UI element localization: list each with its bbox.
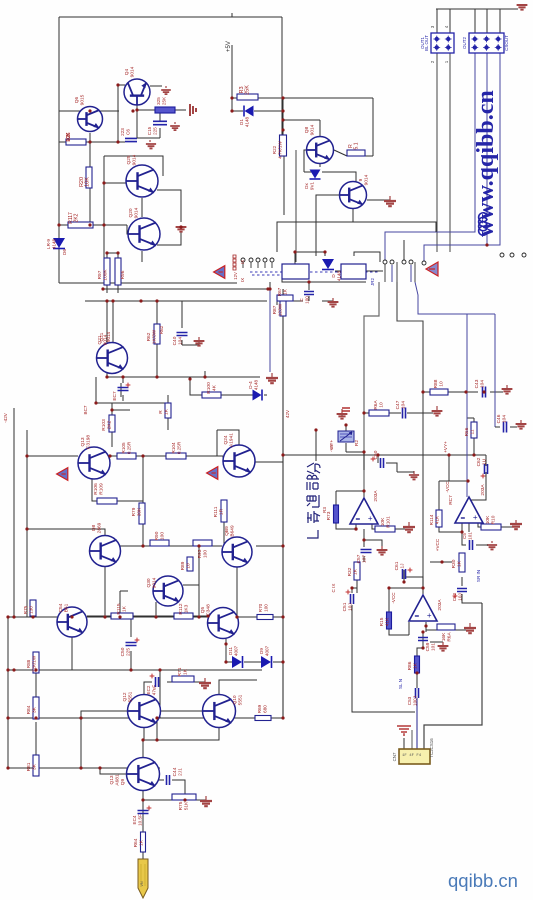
svg-text:R6A: R6A <box>447 632 453 642</box>
svg-text:IX: IX <box>240 278 245 282</box>
svg-text:9014: 9014 <box>106 331 111 342</box>
svg-text:D-4: D-4 <box>248 381 253 389</box>
svg-text:R: R <box>158 410 164 414</box>
svg-text:R75: R75 <box>23 605 28 614</box>
svg-text:-VCC: -VCC <box>445 481 450 493</box>
svg-text:C51: C51 <box>342 602 348 611</box>
svg-text:C62: C62 <box>476 457 482 466</box>
svg-text:680: 680 <box>263 705 268 713</box>
svg-text:R70: R70 <box>258 603 263 612</box>
svg-text:100: 100 <box>203 550 209 558</box>
svg-text:Q24: Q24 <box>223 435 229 444</box>
svg-text:1R: 1R <box>219 508 225 515</box>
svg-text:4007: 4007 <box>234 645 239 656</box>
svg-text:1U: 1U <box>482 458 488 465</box>
svg-text:R88: R88 <box>433 379 439 388</box>
svg-text:223: 223 <box>120 128 125 136</box>
svg-text:Q9: Q9 <box>120 778 126 785</box>
svg-text:Q21: Q21 <box>99 332 104 341</box>
svg-text:101: 101 <box>468 532 473 540</box>
svg-text:5.1: 5.1 <box>354 142 360 149</box>
svg-text:R6A: R6A <box>373 400 379 410</box>
svg-text:10K: 10K <box>66 132 72 142</box>
svg-text:C348: C348 <box>206 604 212 616</box>
svg-text:12V: 12V <box>233 272 238 280</box>
svg-text:QB9: QB9 <box>224 526 230 536</box>
svg-text:225: 225 <box>153 127 158 135</box>
svg-text:11: 11 <box>470 429 476 434</box>
svg-text:1K: 1K <box>122 605 128 612</box>
svg-text:51K: 51K <box>184 801 190 810</box>
svg-text:SR IN: SR IN <box>476 570 481 582</box>
svg-text:R89: R89 <box>180 561 186 570</box>
svg-text:R84: R84 <box>26 705 32 714</box>
svg-text:104: 104 <box>480 380 486 388</box>
svg-text:100K: 100K <box>103 269 109 281</box>
svg-text:101: 101 <box>431 643 437 651</box>
svg-text:5551: 5551 <box>128 691 134 702</box>
svg-text:OUT1: OUT1 <box>420 37 425 49</box>
svg-text:EC2: EC2 <box>146 685 151 694</box>
svg-text:D11: D11 <box>228 647 233 656</box>
svg-text:R106: R106 <box>93 483 99 495</box>
svg-text:C3198: C3198 <box>86 435 92 449</box>
svg-text:Q8: Q8 <box>304 126 310 133</box>
svg-text:10: 10 <box>186 563 192 569</box>
svg-text:C15: C15 <box>147 126 152 135</box>
svg-text:4007: 4007 <box>265 645 270 656</box>
svg-text:C46: C46 <box>496 414 502 423</box>
svg-text:R67: R67 <box>277 287 282 296</box>
svg-text:2J1: 2J1 <box>178 768 184 776</box>
svg-text:R104: R104 <box>171 442 176 453</box>
svg-text:Q5: Q5 <box>200 606 206 613</box>
svg-text:A681: A681 <box>115 774 121 786</box>
svg-text:R86: R86 <box>407 661 413 670</box>
svg-text:10.5F: 10.5F <box>138 814 143 826</box>
svg-text:SL N: SL N <box>398 679 403 689</box>
svg-text:9: 9 <box>358 178 364 181</box>
svg-text:R114: R114 <box>429 514 434 525</box>
svg-text:1K: 1K <box>457 560 463 567</box>
svg-text:2K2: 2K2 <box>74 213 80 222</box>
svg-text:RC7: RC7 <box>448 495 454 505</box>
svg-text:100J: 100J <box>413 696 418 706</box>
svg-text:9014: 9014 <box>134 207 140 218</box>
svg-text:Q20: Q20 <box>128 208 134 217</box>
svg-text:203A: 203A <box>373 490 379 502</box>
svg-text:-VY+: -VY+ <box>329 440 334 451</box>
svg-text:VN: VN <box>140 881 144 887</box>
svg-text:-42V: -42V <box>3 412 8 423</box>
svg-text:R93: R93 <box>197 549 203 558</box>
svg-text:Q13: Q13 <box>80 437 86 446</box>
svg-text:104: 104 <box>502 415 508 423</box>
svg-text:R112: R112 <box>178 603 184 614</box>
svg-text:C6: C6 <box>126 129 131 135</box>
svg-text:R22: R22 <box>272 145 277 154</box>
svg-text:39K: 39K <box>137 507 143 516</box>
svg-text:BC7: BC7 <box>83 405 88 414</box>
svg-text:47uF: 47uF <box>152 685 157 696</box>
svg-text:16K: 16K <box>441 632 447 641</box>
svg-text:100: 100 <box>264 604 269 612</box>
svg-text:www.qqibb.cn: www.qqibb.cn <box>473 90 499 237</box>
svg-text:TC2CS16: TC2CS16 <box>429 738 434 758</box>
svg-text:9015: 9015 <box>80 94 86 105</box>
svg-text:R81: R81 <box>26 762 32 771</box>
svg-text:R66: R66 <box>464 427 470 436</box>
svg-text:9014: 9014 <box>132 154 138 165</box>
svg-text:2K2: 2K2 <box>107 420 113 429</box>
svg-text:C57: C57 <box>356 554 362 563</box>
svg-text:+5V: +5V <box>226 41 232 52</box>
svg-text:Q12: Q12 <box>122 692 128 701</box>
svg-text:+VCC: +VCC <box>435 538 440 551</box>
svg-text:25K: 25K <box>162 96 167 105</box>
svg-text:qqibb.cn: qqibb.cn <box>448 870 518 891</box>
svg-text:EC7: EC7 <box>112 391 118 401</box>
svg-text:0.25R: 0.25R <box>127 441 132 454</box>
svg-text:R71: R71 <box>177 667 183 676</box>
svg-text:2869: 2869 <box>97 522 103 533</box>
svg-text:R30: R30 <box>451 559 457 568</box>
svg-text:10: 10 <box>439 381 445 387</box>
svg-text:R87: R87 <box>272 305 278 314</box>
svg-text:1F 4F F4: 1F 4F F4 <box>402 754 422 758</box>
svg-text:R115: R115 <box>116 603 122 614</box>
svg-text:41K: 41K <box>435 515 440 524</box>
svg-text:R109: R109 <box>99 483 105 495</box>
svg-text:LR-9: LR-9 <box>46 239 51 249</box>
svg-text:R62: R62 <box>146 332 152 341</box>
svg-text:CSOUT: CSOUT <box>504 35 509 51</box>
svg-text:325: 325 <box>156 97 161 105</box>
svg-text:9014: 9014 <box>310 124 316 135</box>
svg-text:B649: B649 <box>230 525 236 537</box>
svg-text:Q30: Q30 <box>146 578 152 587</box>
svg-text:R69: R69 <box>257 704 262 713</box>
svg-text:R105: R105 <box>121 442 126 453</box>
svg-text:R32: R32 <box>347 567 353 576</box>
svg-text:10: 10 <box>379 402 385 408</box>
svg-text:10J: 10J <box>458 593 463 600</box>
svg-text:130: 130 <box>29 606 34 614</box>
svg-text:D6: D6 <box>62 249 67 255</box>
svg-text:Dx: Dx <box>304 182 309 188</box>
svg-text:1K: 1K <box>283 288 288 295</box>
svg-text:1K: 1K <box>413 662 419 669</box>
svg-text:0.25R: 0.25R <box>177 441 182 454</box>
svg-text:B61: B61 <box>64 603 70 612</box>
svg-text:9014: 9014 <box>130 66 136 77</box>
svg-text:C44: C44 <box>172 767 178 776</box>
svg-text:3K: 3K <box>32 706 38 713</box>
svg-text:R111: R111 <box>213 506 219 517</box>
svg-text:1K: 1K <box>164 408 170 415</box>
svg-text:104: 104 <box>401 401 407 409</box>
svg-text:10K: 10K <box>380 517 386 526</box>
svg-text:C53: C53 <box>407 696 412 705</box>
svg-text:+VY+: +VY+ <box>443 441 448 453</box>
svg-text:C50: C50 <box>120 647 126 656</box>
svg-text:10K: 10K <box>85 177 91 187</box>
svg-text:Q8: Q8 <box>91 524 97 531</box>
svg-text:JR2: JR2 <box>370 278 375 286</box>
svg-text:123W: 123W <box>278 303 284 316</box>
svg-text:R75: R75 <box>178 801 184 810</box>
svg-text:225: 225 <box>126 648 132 656</box>
svg-text:D9: D9 <box>259 648 264 654</box>
svg-text:-VCC: -VCC <box>391 592 396 604</box>
svg-text:R2: R2 <box>354 440 360 446</box>
svg-text:42V: 42V <box>285 409 290 418</box>
svg-text:IX: IX <box>240 260 245 264</box>
svg-text:R103: R103 <box>101 419 107 431</box>
svg-text:R97: R97 <box>97 270 103 279</box>
svg-text:C54: C54 <box>58 603 64 612</box>
svg-text:9014: 9014 <box>152 577 158 588</box>
svg-text:4148: 4148 <box>52 238 57 249</box>
svg-text:Q6: Q6 <box>74 96 80 103</box>
svg-text:107: 107 <box>362 555 368 563</box>
svg-text:Q4: Q4 <box>124 68 130 75</box>
svg-text:Q13: Q13 <box>109 775 115 784</box>
svg-text:CN7: CN7 <box>392 752 397 761</box>
svg-text:R10: R10 <box>491 515 497 524</box>
svg-text:100: 100 <box>160 532 166 540</box>
svg-text:R3: R3 <box>322 507 327 513</box>
svg-text:25K: 25K <box>245 85 251 95</box>
svg-text:R100: R100 <box>206 382 212 394</box>
svg-text:OUT2: OUT2 <box>462 37 467 49</box>
svg-text:R64: R64 <box>133 838 139 847</box>
svg-text:10J: 10J <box>348 603 354 611</box>
svg-text:R62: R62 <box>159 325 164 334</box>
svg-text:C61: C61 <box>394 561 400 570</box>
svg-text:C40: C40 <box>172 336 178 345</box>
svg-text:1K: 1K <box>139 839 145 846</box>
svg-text:C5: C5 <box>462 533 467 539</box>
svg-text:10K: 10K <box>485 515 491 524</box>
svg-text:+: + <box>427 611 432 620</box>
svg-text:3K: 3K <box>32 763 38 770</box>
svg-text:C43: C43 <box>474 379 480 388</box>
svg-text:203A: 203A <box>480 484 486 496</box>
svg-text:41K: 41K <box>385 617 391 626</box>
svg-text:R96: R96 <box>120 270 126 279</box>
svg-text:4148: 4148 <box>245 116 250 127</box>
svg-text:5551: 5551 <box>238 694 244 705</box>
svg-text:A1941: A1941 <box>229 433 235 447</box>
svg-text:4K: 4K <box>212 384 218 391</box>
svg-text:R101: R101 <box>386 516 392 528</box>
svg-text:R88: R88 <box>26 659 31 668</box>
svg-text:1K3: 1K3 <box>184 604 190 613</box>
svg-text:EC4: EC4 <box>132 815 137 824</box>
svg-text:1K: 1K <box>353 568 359 575</box>
svg-text:203A: 203A <box>437 599 443 611</box>
svg-text:+: + <box>368 514 373 523</box>
svg-text:104: 104 <box>178 337 184 345</box>
svg-text:C59: C59 <box>425 642 431 651</box>
svg-text:R15: R15 <box>379 617 385 626</box>
svg-text:4148: 4148 <box>254 379 259 390</box>
svg-text:R79: R79 <box>131 507 137 516</box>
svg-text:1K/3W: 1K/3W <box>152 329 158 344</box>
svg-text:+: + <box>473 513 478 522</box>
svg-text:4.7K/1W: 4.7K/1W <box>278 141 283 159</box>
svg-text:9014: 9014 <box>364 174 370 185</box>
svg-text:C IX: C IX <box>331 584 336 593</box>
svg-text:9V1: 9V1 <box>310 181 315 190</box>
svg-text:100: 100 <box>305 296 310 304</box>
svg-text:1K: 1K <box>183 668 189 675</box>
svg-text:Q25: Q25 <box>126 155 132 164</box>
svg-text:C47: C47 <box>395 400 401 409</box>
svg-text:R90: R90 <box>154 531 160 540</box>
svg-text:D1: D1 <box>239 119 244 125</box>
svg-text:Q10: Q10 <box>232 695 238 704</box>
svg-text:1J: 1J <box>400 563 406 569</box>
